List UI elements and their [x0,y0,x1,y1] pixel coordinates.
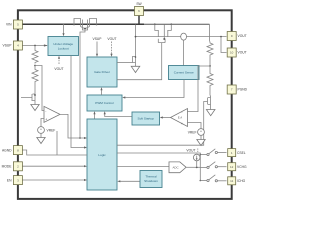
pin MODE [13,162,22,171]
transistor Q3 [133,55,136,65]
block Logic [87,119,117,190]
ground below Q3 [135,65,137,67]
switch S3 to ICHG [200,180,202,182]
wire Thermal Shutdown to Logic [120,180,140,182]
svg-text:+: + [181,122,183,126]
wire Current Sense to PWM [125,80,184,98]
pin ICHG [228,177,236,185]
pin VOUT1 [227,32,236,41]
vref source VREF2 [198,129,205,136]
svg-text:VIN: VIN [6,23,12,27]
wire rail to feedback divider [209,24,211,41]
ground below VREF1 [40,133,42,137]
svg-text:VOUT: VOUT [238,34,247,38]
wire EA1 noninverting to VREF1 [41,119,44,127]
svg-text:ADC: ADC [172,166,178,170]
svg-text:EN: EN [7,178,12,182]
svg-text:11: 11 [230,179,233,183]
vref source VREF1 [38,127,45,134]
svg-text:PWM Control: PWM Control [95,101,114,105]
svg-text:VSUP: VSUP [93,37,103,41]
ground below VREF2 [200,135,202,139]
node FB [209,65,211,67]
svg-text:VOUT: VOUT [54,67,63,71]
pin SW [135,7,144,16]
ground below Q2 [210,107,212,110]
wire SW node line [136,36,181,38]
svg-text:ICHG: ICHG [237,179,246,183]
wire VIN rail [22,23,144,25]
switch S1 to CSEL [200,154,202,156]
svg-text:Lockout: Lockout [58,47,69,51]
vout source circle [193,154,200,161]
svg-text:PGND: PGND [238,88,248,92]
svg-text:VOUT: VOUT [107,37,116,41]
resistor R3 feedback upper [207,42,213,67]
wire sense to VOUT pins [187,36,227,38]
wire Logic to PWM [94,114,96,119]
svg-text:CSEL: CSEL [237,151,246,155]
svg-text:-: - [45,109,46,113]
svg-text:VOUT: VOUT [238,51,247,55]
transistor Q1 clamp [21,93,35,103]
wire divider tap to EA1 inverting input [35,66,44,111]
pin VCHG [228,163,236,171]
wire VOUT stub into Gate Driver [111,42,113,55]
block Gate Driver [87,57,117,87]
wire sensor to Current Sense block [183,40,185,66]
resistor R2 SUP divider lower [32,66,38,93]
svg-text:SW: SW [136,2,142,6]
block UVLO [48,37,79,56]
IC border [18,10,232,199]
svg-text:+: + [45,118,47,122]
pin SUP [13,41,22,50]
wire Q2 gate from Logic [117,102,208,146]
wire EA2 noninverting to VREF2 [188,123,202,129]
transistor Q2 discharge [208,96,211,107]
wire EA2 output to Soft Startup [163,117,171,119]
op-amp EA2 [171,109,188,127]
wire ADC to VOUT junction [186,166,200,168]
pin EN [13,176,22,185]
wire UVLO bottom to Logic left [71,56,84,148]
wire Logic to ADC [117,165,169,167]
wire Q3 drain up to rail [135,25,137,55]
wire Logic to switches feed [117,153,200,181]
wire Gate Driver lower output to M3M4 gates [117,43,162,80]
svg-text:Gate Driver: Gate Driver [94,70,110,74]
pin VOUT2 [227,48,236,57]
svg-text:+: + [40,128,42,132]
wire Gate Driver to Q3 gate [117,62,133,64]
current sensor bubble [181,33,187,40]
block PWM Control [87,95,122,111]
svg-text:VREF: VREF [188,130,197,134]
svg-text:Shutdown: Shutdown [144,179,158,183]
svg-text:-: - [181,111,182,115]
wire AGND [22,150,87,155]
pin CSEL [228,149,236,157]
svg-text:Under-Voltage: Under-Voltage [53,42,73,46]
block Soft Startup [132,112,160,125]
svg-text:Soft Startup: Soft Startup [138,117,155,121]
wire rail thin segment [144,23,210,25]
wire FB tap to EA2 [188,66,211,112]
svg-text:12: 12 [230,165,234,169]
ground below Q1 [34,102,36,105]
svg-text:VOUT: VOUT [186,149,195,153]
wire UVLO top input from rail [63,23,65,25]
block Thermal Shutdown [140,171,162,188]
wire M1M2 gate node down to Logic [80,30,85,138]
svg-text:VREF: VREF [47,128,56,132]
wire Soft Startup to PWM [105,114,132,117]
svg-text:VCHG: VCHG [237,165,247,169]
pin PGND [227,85,236,94]
resistor R1 SUP divider upper [32,46,38,64]
wire MODE to Logic [22,165,84,167]
node SUP divider junction [34,45,36,47]
svg-text:+: + [200,130,202,134]
wire SUP to UVLO [22,45,47,47]
pin AGND [13,146,22,155]
adc ADC [169,162,186,173]
svg-text:AGND: AGND [2,148,12,152]
transistor pair M1 M2 reverse blocking [73,24,75,26]
op-amp EA1 [44,106,60,122]
wire PWM to Gate Driver [101,90,103,95]
block Current Sense [169,66,200,80]
svg-text:VSUP: VSUP [3,44,13,48]
svg-text:MODE: MODE [2,165,13,169]
switch S2 to VCHG [200,166,207,168]
wire EA1 output to Logic [60,114,84,138]
node divider tap [34,65,36,67]
resistor R4 feedback lower [207,66,213,96]
transistor pair M3 M4 sense [154,23,156,25]
svg-text:Logic: Logic [98,153,106,157]
wire VOUT stub into UVLO bottom [58,59,60,65]
svg-text:E.A: E.A [178,116,182,120]
pin VIN [13,20,22,29]
wire SW stub [138,16,140,25]
svg-text:Current Sense: Current Sense [174,71,194,75]
svg-text:10: 10 [230,51,234,55]
wire VSUP stub into Gate Driver [96,42,98,55]
wire EN to Logic [22,179,84,181]
svg-text:Thermal: Thermal [145,175,157,179]
